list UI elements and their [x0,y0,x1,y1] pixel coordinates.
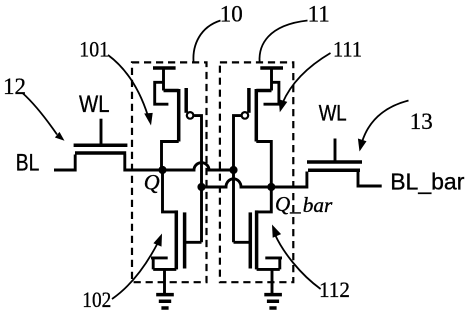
transistor Q111 PMOS source lead [264,68,279,104]
transistor Q101 PMOS gate bubble [187,112,194,119]
wire T12 drain to node Q (top rail with hop over left input wire) [125,155,234,171]
leader arrow 111 [283,53,331,103]
svg-text:Q_: Q_ [275,192,301,216]
node Q junction dot [158,166,166,174]
dashed box 11 (right inverter) [220,62,293,282]
ground right [264,295,282,308]
svg-text:WL: WL [79,91,110,118]
node Q_bar junction dot [267,183,275,191]
transistor Q112 NMOS drain lead [257,187,272,212]
svg-text:WL: WL [319,100,347,125]
svg-text:Q: Q [144,170,160,195]
transistor Q112 NMOS channel [255,210,259,269]
transistor Q112 NMOS source bar [257,268,280,271]
svg-text:bar: bar [303,193,333,217]
leader arrow 101 [108,55,148,116]
wire T13 source to BL_bar [358,172,382,187]
VDD T-bar left [153,66,176,70]
svg-text:BL: BL [16,149,40,176]
wire right ground stem [271,269,274,293]
svg-text:12: 12 [3,74,26,99]
wire Q111 gate to right input vertical [234,116,242,243]
wire Q_bar bottom rail (hop over right input wire, to T13) [202,172,307,188]
dashed box 10 (left inverter) [132,62,207,282]
wire Q101 gate to left input vertical [194,116,201,243]
transistor Q111 PMOS gate bar [247,88,251,113]
svg-text:102: 102 [82,287,111,312]
transistor Q111 PMOS channel [256,89,271,142]
transistor 13 gate bar [307,160,362,164]
node: bottom rail / left input junction dot [197,183,205,191]
svg-text:13: 13 [410,109,433,134]
leader arrow 112 [275,235,320,289]
leader line for 11 [260,21,308,63]
transistor Q101 PMOS channel [164,89,179,142]
svg-text:101: 101 [79,36,109,61]
transistor Q102 NMOS source contact [151,258,168,270]
leader arrow 13 [362,101,409,143]
transistor Q111 PMOS gate bubble [242,112,249,119]
node: top rail to right inverter input junction dot [229,166,237,174]
svg-text:111: 111 [333,36,362,61]
transistor Q102 NMOS drain lead [163,170,177,212]
transistor Q102 NMOS source bar [153,268,176,271]
svg-text:BL_bar: BL_bar [390,168,465,194]
wire Q101 drain to node Q [162,142,179,171]
transistor Q102 NMOS gate bar [183,212,187,268]
VDD T-bar right [260,66,283,70]
svg-text:11: 11 [308,1,330,26]
transistor Q112 NMOS gate bar [249,212,253,268]
wire Q111 drain to node Q_bar [256,142,271,188]
transistor 13 channel [308,169,360,173]
ground left [156,295,174,308]
wire WL stem left [100,119,103,144]
transistor Q112 NMOS source contact [265,258,282,270]
transistor Q102 NMOS channel [175,210,179,269]
transistor 12 gate bar [74,144,128,148]
leader arrow 12 [23,93,58,135]
transistor Q101 PMOS source lead [155,68,169,104]
wire left ground stem [163,269,166,293]
wire Q102 gate stub [185,241,202,244]
transistor 12 channel [75,151,126,155]
svg-text:10: 10 [220,1,243,26]
wire Q112 gate stub [234,241,251,244]
wire WL stem right [334,139,337,161]
wire BL lead [54,155,75,171]
leader arrow 102 [112,243,158,300]
transistor Q101 PMOS gate bar [184,88,188,113]
leader line for 10 [193,21,220,62]
svg-text:112: 112 [319,277,350,302]
